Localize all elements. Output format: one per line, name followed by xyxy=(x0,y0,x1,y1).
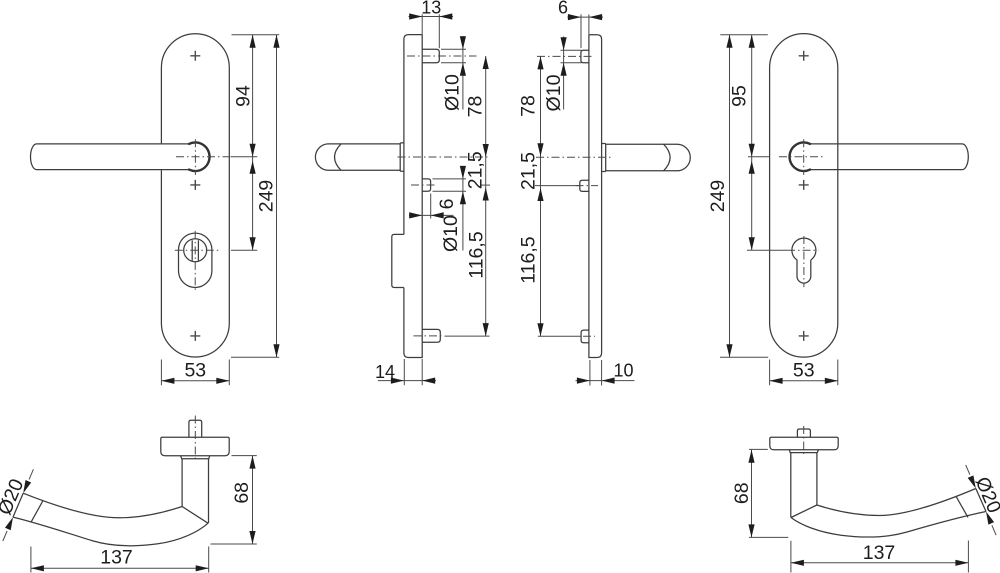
cylinder slot xyxy=(192,240,198,260)
extension line 6 top right-view xyxy=(580,14,582,48)
svg-text:137: 137 xyxy=(863,542,896,564)
svg-text:21,5: 21,5 xyxy=(518,152,540,190)
handle grip side view left xyxy=(315,144,400,170)
neck flange right handle xyxy=(789,450,818,453)
centerline cylinder horizontal xyxy=(175,249,219,251)
extension line 21,5 lower side-right xyxy=(535,185,580,187)
mount plate right handle xyxy=(770,437,838,450)
extension tick 21,5 lower side-left xyxy=(480,184,490,186)
spindle right handle xyxy=(797,429,810,437)
lever neck circle right (bold arc) xyxy=(790,142,811,171)
dimension 53 line left xyxy=(161,378,229,384)
handle grip end band arc side-right xyxy=(664,144,671,171)
extension line bottom right plate xyxy=(720,356,768,358)
dimension 13 line xyxy=(409,13,454,19)
centerline top boss side-right xyxy=(537,55,594,57)
grip end band line left handle xyxy=(31,501,43,523)
centerline spindle right xyxy=(803,426,805,455)
dimension diameter20 arrows right handle xyxy=(966,465,996,535)
svg-text:10: 10 xyxy=(613,360,633,380)
centerline bottom boss side-right xyxy=(583,335,595,337)
grip end band line right handle xyxy=(956,496,968,517)
extension line 116,5 bottom side-left xyxy=(445,335,490,337)
extension lines 53 left xyxy=(161,360,229,386)
extension lines 68 right handle xyxy=(749,449,788,537)
svg-text:Ø10: Ø10 xyxy=(441,74,463,111)
middle bearing boss side-right xyxy=(580,180,589,191)
centerline top boss side-left xyxy=(407,55,477,57)
extension line top right plate xyxy=(720,34,768,36)
dimension 68 line left handle xyxy=(249,456,255,544)
dimension 14 line xyxy=(378,378,436,384)
bottom fixing boss side-left xyxy=(422,329,440,342)
extension lines diameter10 view3 xyxy=(561,50,582,63)
grip bottom contour right handle xyxy=(791,512,986,538)
top fixing boss side-right xyxy=(581,50,589,63)
svg-text:68: 68 xyxy=(231,482,253,504)
dimension 94 line xyxy=(250,35,256,250)
svg-text:21,5: 21,5 xyxy=(464,151,486,189)
extension lines 137 right handle xyxy=(791,541,969,573)
extension lines 10 bottom xyxy=(590,360,602,386)
cylinder guard oval xyxy=(179,233,212,287)
centerline handle side-left xyxy=(398,156,490,158)
screw mark top-left plate xyxy=(190,51,200,61)
centerline middle boss side-right xyxy=(576,185,599,187)
svg-text:95: 95 xyxy=(729,85,751,107)
svg-text:53: 53 xyxy=(184,359,206,381)
spindle left handle xyxy=(189,420,202,437)
grip top contour left handle xyxy=(23,493,182,518)
svg-text:249: 249 xyxy=(707,180,729,213)
extension lines 68 left handle xyxy=(211,456,257,544)
extension line 6 boss side-left xyxy=(430,194,432,219)
centerline lever hub right horizontal xyxy=(779,156,823,158)
svg-text:53: 53 xyxy=(793,359,815,381)
extension lines 14 xyxy=(404,359,422,385)
dimension 95 line xyxy=(749,35,755,250)
extension line 116,5 bottom side-right xyxy=(538,335,581,337)
dimension diameter10 top line xyxy=(460,36,466,110)
screw mark below lever left plate xyxy=(190,180,200,190)
lever neck circle left (bold arc) xyxy=(189,142,210,171)
extension line handle center right plate xyxy=(748,156,769,158)
mount plate left handle xyxy=(161,437,229,456)
dimension 249 line right xyxy=(726,35,732,357)
extension line bottom left plate xyxy=(231,356,279,358)
extension line cylinder center left plate xyxy=(231,249,257,251)
extension lines 53 right xyxy=(770,360,838,386)
centerline keyhole horizontal solid xyxy=(747,249,787,251)
extension line 13 right xyxy=(438,14,440,48)
dimension 6 line side-left xyxy=(409,212,454,218)
grip end face left handle xyxy=(13,493,23,517)
centerline middle boss side-left xyxy=(411,184,437,186)
handle grip end band arc side-left xyxy=(335,144,342,170)
centerline lever hub horizontal xyxy=(176,156,231,158)
centerline keyhole vertical xyxy=(803,236,805,287)
handle grip side view right xyxy=(606,144,691,171)
centerline handle side-right xyxy=(536,156,612,158)
side plate profile (14mm) xyxy=(404,35,422,358)
extension lines 137 left handle xyxy=(31,547,209,573)
svg-text:6: 6 xyxy=(436,199,458,210)
handle flange side-left xyxy=(400,143,404,171)
dimension diameter10 mid line xyxy=(460,166,466,251)
screw mark bottom right plate xyxy=(799,331,809,341)
svg-text:Ø10: Ø10 xyxy=(543,74,565,111)
backplate left plate outline xyxy=(161,34,229,357)
svg-text:116,5: 116,5 xyxy=(518,236,540,284)
extension line 6 right (plate top) xyxy=(588,14,590,34)
svg-text:78: 78 xyxy=(518,95,540,117)
dimension diameter10 view3 line xyxy=(561,37,567,110)
miter joint line right handle xyxy=(791,505,817,518)
centerline lever hub vertical xyxy=(194,139,196,175)
dimension 137 line left handle xyxy=(31,565,209,571)
dimension 68 line right handle xyxy=(748,450,754,538)
centerline lever hub right vertical xyxy=(803,139,805,175)
grip end face right handle xyxy=(976,489,986,512)
svg-text:249: 249 xyxy=(255,180,277,213)
backplate right plate outline xyxy=(770,34,838,357)
bottom fixing boss side-right xyxy=(581,330,589,343)
extension line handle center left plate xyxy=(231,156,257,158)
centerline cylinder vertical xyxy=(194,231,196,291)
dimension column 78/21,5/116,5 side-left xyxy=(483,56,489,336)
cylinder core circle xyxy=(184,239,207,262)
svg-text:13: 13 xyxy=(421,0,441,17)
handle flange side-right xyxy=(602,144,606,172)
lever handle bar left xyxy=(30,144,189,170)
extension line 13 left (plate top) xyxy=(421,14,423,34)
svg-text:116,5: 116,5 xyxy=(465,231,487,279)
centerline keyhole horizontal dash xyxy=(787,249,818,251)
screw mark top right plate xyxy=(799,51,809,61)
dimension 6 line top xyxy=(567,14,603,20)
neck flange left handle xyxy=(181,456,210,459)
neck shaft right handle xyxy=(791,453,817,518)
centerline spindle left xyxy=(194,416,196,462)
svg-text:Ø10: Ø10 xyxy=(440,215,462,252)
dimension 53 line right xyxy=(770,378,838,384)
grip top contour right handle xyxy=(817,489,976,516)
neck shaft left handle xyxy=(182,459,208,523)
dimension diameter20 arrows left handle xyxy=(3,469,34,541)
cylinder protection bump side xyxy=(392,234,404,287)
dimension column 78/21,5/116,5 side-right xyxy=(537,56,543,336)
dimension 137 line right handle xyxy=(791,560,969,566)
extension lines diameter10 middle xyxy=(433,179,467,191)
svg-text:68: 68 xyxy=(731,482,753,504)
side plate profile (10mm) xyxy=(589,35,602,358)
svg-text:6: 6 xyxy=(558,0,568,18)
grip bottom contour left handle xyxy=(13,517,208,546)
keyhole cylinder profile xyxy=(792,238,816,283)
dimension 10 line xyxy=(576,378,635,384)
top fixing boss side-left xyxy=(422,49,439,62)
svg-text:14: 14 xyxy=(375,362,395,382)
extension line top left plate xyxy=(232,34,280,36)
dimension 249 line left xyxy=(273,35,279,357)
screw mark below lever right plate xyxy=(799,180,809,190)
svg-text:137: 137 xyxy=(100,547,133,569)
lever handle bar right xyxy=(810,144,968,170)
miter joint line left handle xyxy=(182,507,208,524)
middle bearing boss side-left xyxy=(422,179,430,191)
extension lines diameter 10 top xyxy=(441,49,466,62)
centerline bottom boss side-left xyxy=(414,335,443,337)
svg-text:78: 78 xyxy=(464,96,486,118)
svg-text:94: 94 xyxy=(232,85,254,107)
screw mark bottom-left plate xyxy=(190,331,200,341)
